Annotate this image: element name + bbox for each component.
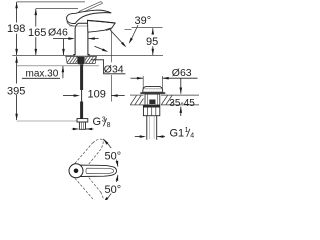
svg-text:109: 109 [88, 89, 106, 101]
max.30 underline [22, 77, 60, 79]
spout-level tick [132, 27, 163, 29]
dimension 165 line [35, 9, 37, 27]
faucet body [75, 23, 88, 55]
water stream line [110, 30, 125, 47]
dimension 109 left arrow [63, 95, 78, 97]
D63 extension lines [142, 76, 144, 89]
svg-text:395: 395 [7, 86, 25, 98]
dimension 35-45 top arrow [180, 78, 182, 94]
threaded rod upper [80, 65, 83, 91]
countertop top line [12, 54, 75, 56]
threaded rod lower [80, 102, 83, 119]
top view: handle inner slot [86, 168, 114, 173]
top view: dashed handle rotated up [75, 136, 106, 170]
svg-text:50°: 50° [105, 151, 122, 163]
waste shank [145, 94, 160, 105]
waste flange [140, 92, 165, 94]
dimension 109 right arrow [111, 95, 124, 97]
rod thin middle [81, 90, 83, 102]
50deg lower label background [103, 182, 126, 194]
G1 1/4 arrows [135, 136, 144, 138]
faucet spout [88, 20, 116, 32]
under-deck hatch left [66, 56, 78, 63]
39deg leader arc [130, 25, 139, 43]
hose-end reference line [17, 120, 77, 122]
svg-text:Ø46: Ø46 [48, 27, 68, 39]
shank center detail [149, 100, 155, 105]
waste tailpipe [147, 116, 157, 140]
dimension 95 line [152, 28, 154, 34]
svg-text:G1: G1 [170, 128, 185, 140]
mounting nut [78, 56, 84, 64]
svg-text:50°: 50° [105, 184, 122, 196]
under-deck hatch right [85, 56, 97, 63]
dimension 198 tick line [17, 1, 85, 3]
svg-text:4: 4 [190, 133, 194, 140]
deck-hole arrow [95, 46, 105, 50]
D34 leader [92, 60, 126, 74]
svg-text:198: 198 [7, 23, 25, 35]
top view: pivot center dot [74, 169, 79, 174]
dimension 395 line [16, 56, 18, 83]
aerator outlet [106, 28, 112, 31]
svg-text:165: 165 [28, 27, 46, 39]
dimension 198 line [16, 2, 18, 23]
dimension D46 right arrow [88, 38, 98, 40]
svg-text:39°: 39° [135, 15, 152, 27]
50deg upper label background [103, 148, 126, 160]
faucet cap joint line [69, 25, 89, 27]
svg-text:8: 8 [107, 122, 111, 129]
faucet base plate [73, 54, 90, 56]
hose tube end [79, 122, 85, 129]
svg-text:Ø63: Ø63 [172, 67, 192, 79]
waste deck hatch right [161, 95, 199, 105]
dimension D46 left arrow [53, 38, 73, 40]
dimension 165 tick line [36, 8, 78, 10]
top view: dashed handle rotated down [75, 171, 106, 205]
countertop bottom line [16, 65, 99, 67]
lever closed [67, 10, 112, 23]
svg-text:95: 95 [146, 36, 158, 48]
hose fitting [77, 119, 88, 122]
top view: 50deg arc lower [103, 175, 118, 203]
D63 dim line [131, 77, 144, 79]
spout top edge [87, 20, 115, 23]
svg-text:G: G [93, 116, 102, 128]
dimension 35-45 bottom arrow [180, 107, 182, 116]
dimension max.30 upper arrow [63, 39, 65, 56]
outlet-level step segment [125, 29, 132, 31]
outlet projection line [110, 31, 112, 102]
dimension max.30 lower arrow [62, 66, 64, 78]
G3/8 arrows [72, 128, 78, 130]
waste dome [143, 86, 163, 92]
top view: solid handle [80, 165, 117, 176]
svg-text:35-45: 35-45 [169, 98, 195, 109]
lever raised (thin outline) [79, 2, 102, 13]
top view: 50deg arc upper [103, 139, 118, 167]
knob underside curve [67, 22, 75, 27]
top view: pivot circle [69, 164, 83, 178]
waste deck hatch left [130, 95, 144, 105]
waste nut [143, 105, 159, 116]
